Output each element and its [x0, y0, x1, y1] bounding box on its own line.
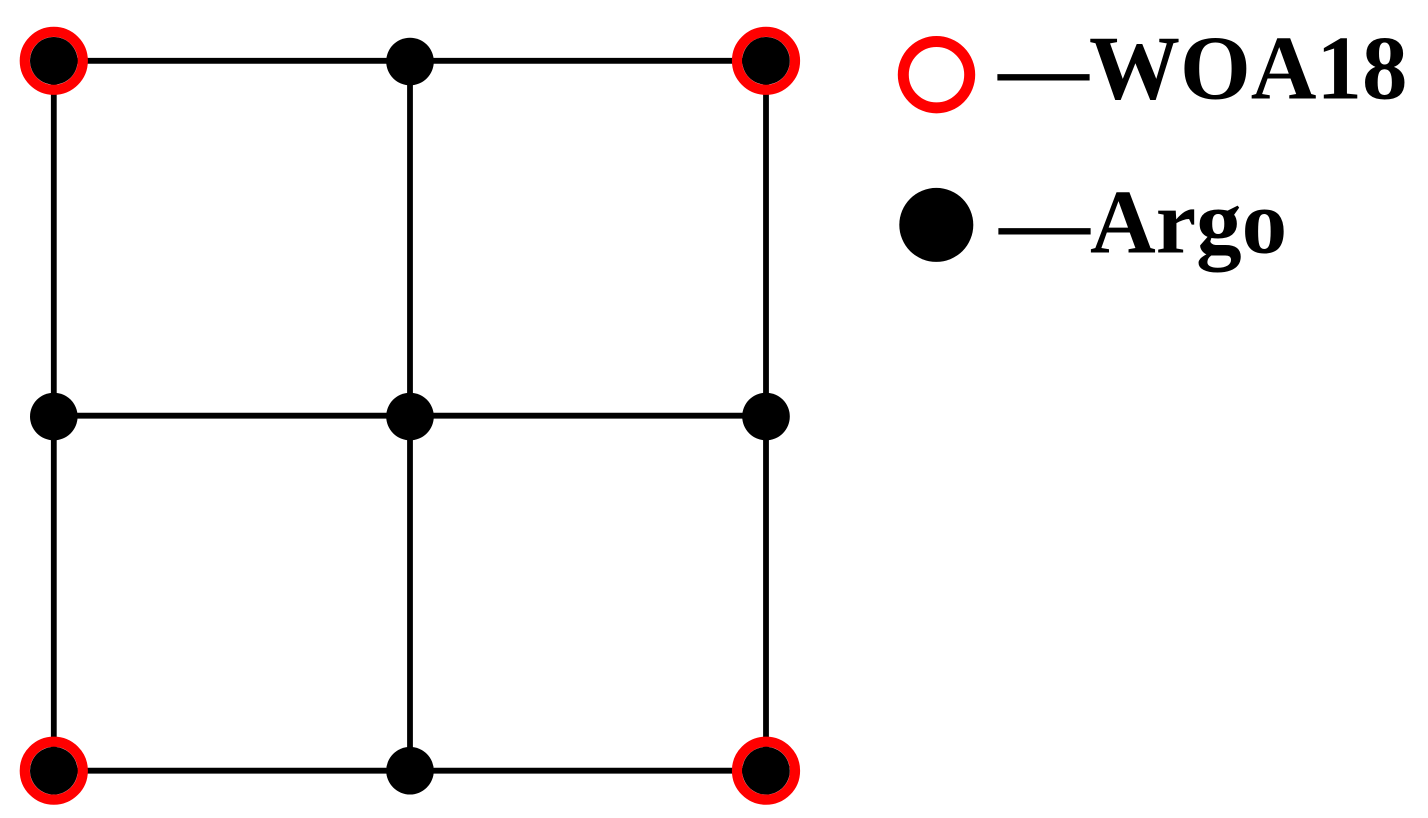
node middle-right: Argo black dot	[742, 393, 790, 441]
node middle-left: Argo black dot	[30, 393, 78, 441]
node top-middle: Argo black dot	[386, 38, 434, 86]
legend symbol: Argo black filled circle	[899, 188, 973, 262]
node bottom-middle: Argo black dot	[386, 747, 434, 795]
wire: top horizontal grid line	[54, 58, 766, 64]
node top-left: Argo black dot	[30, 37, 78, 85]
node bottom-right: Argo black dot	[742, 747, 790, 795]
legend symbol: WOA18 red open circle	[903, 41, 969, 107]
node bottom-left: WOA18 red ring	[25, 742, 83, 800]
node top-right: Argo black dot	[742, 37, 790, 85]
wire: middle vertical grid line	[407, 61, 413, 771]
wire: right vertical grid line	[763, 61, 769, 771]
node top-left: WOA18 red ring	[25, 32, 83, 90]
svg-text:—WOA18: —WOA18	[997, 17, 1408, 118]
node bottom-right: WOA18 red ring	[737, 742, 795, 800]
node top-right: WOA18 red ring	[737, 32, 795, 90]
wire: left vertical grid line	[51, 61, 57, 771]
node center: Argo black dot	[386, 393, 434, 441]
wire: middle horizontal grid line	[54, 413, 766, 419]
node bottom-left: Argo black dot	[30, 747, 78, 795]
wire: bottom horizontal grid line	[54, 768, 766, 774]
svg-text:—Argo: —Argo	[998, 171, 1287, 272]
